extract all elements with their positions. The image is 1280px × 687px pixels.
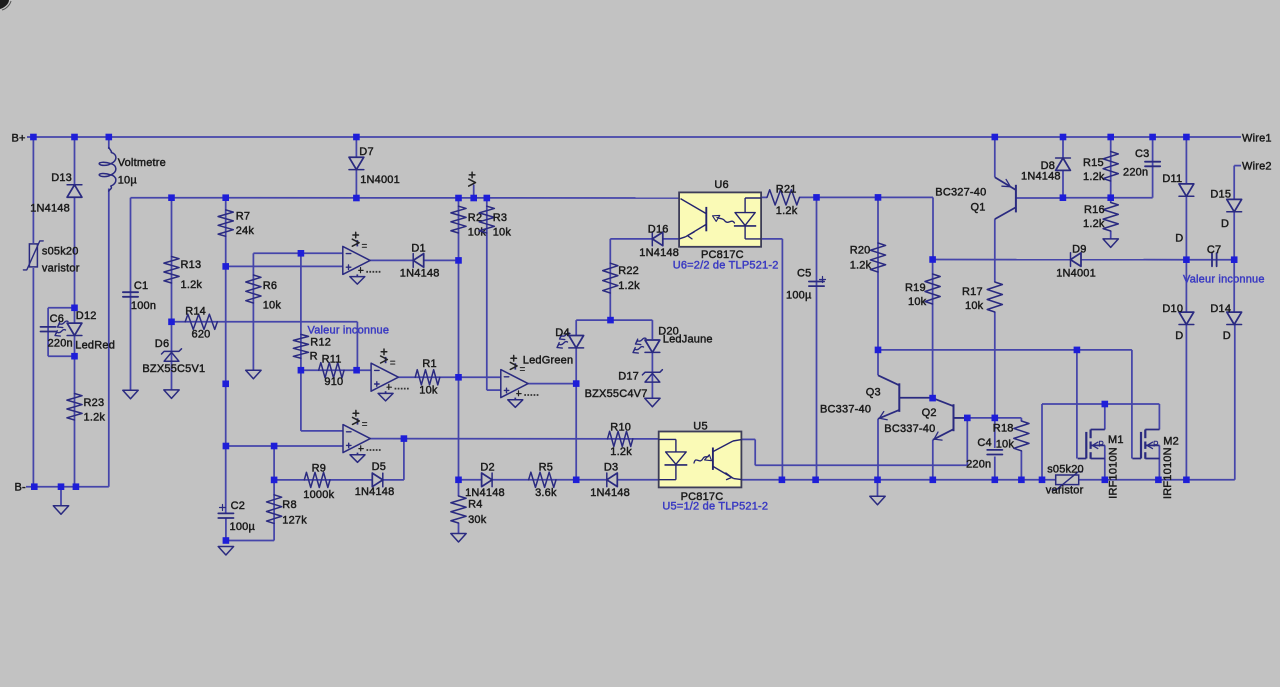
svg-text:1.2k: 1.2k [1083, 218, 1105, 230]
junction minus-R12 [298, 250, 305, 257]
svg-text:R17: R17 [962, 286, 983, 298]
wire D7 lower lead [355, 170, 357, 198]
wire OA4 out [528, 383, 576, 385]
svg-text:10µ: 10µ [118, 174, 138, 186]
svg-text:LedGreen: LedGreen [523, 355, 574, 367]
resistor R7 [218, 210, 233, 236]
wire C1 vertical [130, 198, 132, 391]
wire D7 branch [355, 137, 357, 158]
diode D20 LedJaune [645, 340, 660, 352]
svg-text:10k: 10k [263, 300, 282, 312]
op-amp OA1 [343, 232, 382, 284]
svg-text:10k: 10k [419, 385, 438, 397]
wire U6 out right [761, 239, 782, 480]
diode D8 [1056, 158, 1071, 170]
wire M1 source [1104, 445, 1106, 479]
wire D14 column [1233, 260, 1235, 325]
wire Q1 base rail [1016, 197, 1063, 199]
wire D11 column [1185, 137, 1187, 260]
svg-text:1.2k: 1.2k [84, 412, 106, 424]
wire C3 vertical [1152, 137, 1154, 198]
svg-text:D13: D13 [51, 172, 72, 184]
svg-text:C7: C7 [1207, 244, 1221, 256]
svg-text:D12: D12 [76, 310, 97, 322]
wire R14 line [172, 322, 358, 370]
svg-text:IRF1010N: IRF1010N [1162, 447, 1174, 499]
junction gate-Q3c [875, 347, 882, 354]
svg-text:varistor: varistor [42, 263, 80, 275]
junction railR-D8 [1060, 194, 1067, 201]
wire Wire2 stub [1234, 165, 1241, 167]
svg-text:1N4148: 1N4148 [355, 486, 395, 498]
svg-text:BZX55C5V1: BZX55C5V1 [142, 363, 205, 375]
wire R4 to ground [458, 523, 460, 534]
ground R6 gnd [246, 370, 261, 379]
svg-text:R: R [310, 351, 318, 363]
svg-text:910: 910 [324, 376, 343, 388]
wire D13 branch [74, 137, 76, 308]
junction rail-R2 [455, 195, 462, 202]
svg-text:Valeur inconnue: Valeur inconnue [308, 325, 390, 337]
optocoupler U6 [679, 192, 761, 246]
junction bus-Q1 [992, 134, 999, 141]
svg-text:B+: B+ [12, 133, 26, 145]
wire big bottom rail left [459, 479, 659, 481]
wire R2-D1 to OA4 [458, 260, 460, 377]
wire ground stub rail [877, 480, 879, 497]
capacitor C6 [41, 327, 56, 332]
svg-text:R18: R18 [993, 423, 1014, 435]
C5 plus sign [820, 277, 826, 283]
wire Q3 emitter drop [877, 419, 879, 480]
junction plusrail-R8 [271, 443, 278, 450]
junction rail-D2 [455, 477, 462, 484]
junction Q2base-U5 [964, 415, 971, 422]
capacitor C5 [809, 282, 824, 287]
ground C2 gnd [218, 547, 233, 556]
wire R20 vertical [877, 197, 879, 375]
op-amp OA2 [371, 349, 410, 401]
svg-text:1.2k: 1.2k [618, 280, 640, 292]
wire R4 hang [458, 480, 460, 496]
svg-text:D: D [1175, 232, 1183, 244]
ground rail gnd [870, 496, 885, 505]
svg-text:D14: D14 [1210, 303, 1231, 315]
diode D4 LedGreen [569, 336, 584, 348]
svg-text:Q1: Q1 [971, 202, 986, 214]
junction R11-left [298, 367, 305, 374]
resistor R22 [603, 263, 618, 293]
wire M2 drain [1158, 404, 1160, 430]
wire Q2 emitter drop [932, 440, 934, 480]
svg-text:R11: R11 [322, 354, 342, 366]
optocoupler U5 [659, 432, 742, 488]
svg-text:D17: D17 [618, 371, 639, 383]
wire M1 drain [1104, 404, 1106, 430]
diode D13 [67, 185, 82, 197]
diode D11 [1179, 184, 1194, 196]
op-amp OA3 [343, 410, 382, 462]
svg-text:Valeur inconnue: Valeur inconnue [1183, 274, 1265, 286]
wire R9-D5 line [274, 479, 404, 481]
wire R16 to ground [1110, 231, 1112, 239]
Q3 base lead [899, 397, 932, 399]
svg-text:s05k20: s05k20 [1047, 463, 1084, 475]
svg-text:10k: 10k [996, 439, 1015, 451]
resistor R16 [1103, 203, 1118, 232]
capacitor C3 [1145, 162, 1160, 167]
junction D1-R2 [455, 257, 462, 264]
resistor R1 [415, 370, 440, 385]
svg-text:R1: R1 [422, 358, 436, 370]
svg-text:30k: 30k [468, 514, 487, 526]
resistor R14 [185, 314, 217, 329]
svg-text:C3: C3 [1135, 148, 1149, 160]
wire C2 bottom link [226, 446, 274, 541]
resistor R12 [293, 334, 308, 358]
junction bus-D11 [1183, 134, 1190, 141]
svg-text:127k: 127k [282, 514, 307, 526]
svg-text:10k: 10k [493, 227, 512, 239]
diode D16 [652, 232, 663, 246]
resistor R9 [304, 472, 330, 487]
wire D4 chain [576, 320, 610, 336]
svg-text:D: D [1223, 330, 1231, 342]
junction bus-R15 [1107, 134, 1114, 141]
svg-text:R21: R21 [776, 184, 797, 196]
transistor Q1 [995, 177, 1016, 219]
wire Q1 emitter vert [994, 137, 996, 177]
junction rail-D4 [573, 477, 580, 484]
wire D16 line [610, 238, 679, 240]
junction bus-D13 [71, 134, 78, 141]
LED arrows D20 [636, 338, 647, 345]
transistor Q3 [878, 375, 899, 420]
wire big bottom rail right [1079, 325, 1235, 480]
svg-text:s05k20: s05k20 [42, 246, 79, 258]
wire B+ top bus [27, 136, 1241, 138]
svg-text:U6: U6 [714, 179, 728, 191]
svg-text:C4: C4 [977, 437, 991, 449]
svg-text:D2: D2 [480, 462, 494, 474]
junction bus-C3 [1149, 134, 1156, 141]
svg-text:620: 620 [192, 329, 211, 341]
svg-text:10k: 10k [908, 296, 927, 308]
mosfet M1 [1078, 430, 1105, 459]
svg-text:1N4148: 1N4148 [639, 247, 679, 259]
wire R3 vertical [487, 198, 501, 390]
wire C6 parallel branch [48, 308, 74, 356]
svg-text:C1: C1 [134, 280, 148, 292]
wire D4 to rail [575, 348, 577, 480]
ground D6 gnd [164, 390, 179, 399]
diode D7 [349, 157, 364, 169]
svg-text:D: D [1221, 218, 1229, 230]
svg-text:R4: R4 [468, 499, 482, 511]
junction drainbus-M1 [1102, 401, 1109, 408]
inductor Voltmetre [99, 148, 116, 192]
junction C2-bot [223, 537, 230, 544]
svg-text:D15: D15 [1210, 188, 1231, 200]
wire D9 line [933, 259, 1187, 261]
svg-text:R9: R9 [312, 463, 326, 475]
wire R18 to rail [1020, 451, 1022, 480]
wire R7 backbone [225, 198, 227, 513]
svg-text:1N4148: 1N4148 [30, 203, 70, 215]
op-amp OA4 [501, 355, 540, 407]
screen corner mark [0, 0, 9, 9]
wire backbone below C2 [225, 519, 227, 541]
wire varistor to B- [32, 268, 34, 487]
capacitor C2 [218, 513, 233, 518]
svg-text:D1: D1 [411, 243, 425, 255]
junction bus-D8 [1060, 134, 1067, 141]
svg-text:BC327-40: BC327-40 [935, 186, 986, 198]
LED arrows D4 [560, 333, 571, 340]
junction B-2 [73, 483, 80, 490]
resistor R11 [319, 363, 344, 378]
capacitor C4 [987, 450, 1002, 455]
wire R16 hang [1110, 198, 1112, 203]
diode D10 [1179, 312, 1194, 324]
svg-text:R5: R5 [539, 462, 553, 474]
junction rail-Q2e [930, 477, 937, 484]
wire R19 vertical [932, 260, 934, 399]
junction R1-out [455, 374, 462, 381]
junction B-gnd [58, 483, 65, 490]
svg-text:220n: 220n [966, 459, 991, 471]
svg-text:R22: R22 [618, 265, 639, 277]
junction R14-node [168, 319, 175, 326]
svg-text:C5: C5 [797, 268, 811, 280]
resistor R13 [164, 257, 179, 284]
svg-text:C2: C2 [231, 500, 245, 512]
wire R12 to OA3 minus [301, 370, 343, 431]
wire ground stub B- [60, 487, 62, 506]
resistor R17 [987, 282, 1002, 312]
svg-text:1N4148: 1N4148 [465, 487, 505, 499]
wire V+ flag stub [473, 185, 475, 199]
wire gate bus [878, 350, 1132, 459]
svg-text:1N4148: 1N4148 [400, 267, 440, 279]
svg-text:R13: R13 [181, 259, 202, 271]
svg-text:LedJaune: LedJaune [663, 334, 713, 346]
junction OA3-out [401, 435, 408, 442]
varistor s05k20 left [23, 241, 43, 270]
ground D17 gnd [645, 398, 660, 407]
svg-text:Q3: Q3 [866, 387, 881, 399]
resistor R18 [1014, 421, 1029, 451]
resistor R20 [870, 243, 885, 272]
ground C1 gnd [123, 390, 138, 399]
junction Q2base-R17 [992, 415, 999, 422]
junction Q3base-node [929, 395, 936, 402]
wire R2 vertical [458, 198, 460, 260]
svg-text:1.2k: 1.2k [776, 205, 798, 217]
C2 plus sign [220, 505, 226, 511]
svg-text:R23: R23 [84, 397, 105, 409]
diode D12 LedRed [67, 323, 82, 335]
svg-text:D: D [1175, 330, 1183, 342]
svg-text:R6: R6 [263, 280, 277, 292]
resistor R8 [267, 495, 282, 524]
junction C6-top [71, 305, 78, 312]
wire R21 to C5/R20 rail [800, 197, 934, 259]
junction rail-R18 [1018, 477, 1025, 484]
junction r21-R20 [875, 194, 882, 201]
wire D12 to R23 to B- [74, 308, 76, 487]
wire OA2 out to OA4 minus [398, 376, 500, 378]
svg-text:100µ: 100µ [230, 521, 256, 533]
svg-text:BZX55C4V7: BZX55C4V7 [585, 388, 648, 400]
svg-text:1N4148: 1N4148 [1021, 171, 1061, 183]
svg-text:C6: C6 [50, 313, 64, 325]
capacitor C7 [1212, 253, 1217, 266]
svg-text:10k: 10k [965, 300, 984, 312]
wire D20 to ground [651, 353, 653, 399]
zener diode D6 [164, 352, 179, 361]
svg-text:BC337-40: BC337-40 [884, 423, 935, 435]
svg-text:R19: R19 [905, 282, 926, 294]
wire R21 rail [761, 196, 767, 198]
svg-text:1000k: 1000k [303, 489, 334, 501]
resistor R6 [246, 275, 261, 303]
junction bus-varistor [30, 134, 37, 141]
varistor s05k20 right [1052, 472, 1082, 490]
transistor Q2 [933, 398, 954, 440]
junction D4-D20 [607, 317, 614, 324]
junction B-1 [31, 483, 38, 490]
wire gate feed M1 [1076, 350, 1078, 459]
junction rail-C4 [992, 477, 999, 484]
mosfet M2 [1132, 430, 1159, 459]
wire R15 vertical [1110, 137, 1112, 198]
svg-text:D10: D10 [1162, 303, 1183, 315]
junction rail-D10 [1183, 477, 1190, 484]
wire M2 source [1158, 445, 1160, 479]
junction plus-R7 [222, 263, 229, 270]
junction C7-left [1183, 256, 1190, 263]
wire R11 line [301, 369, 371, 371]
resistor R4 [451, 496, 466, 523]
diode D9 [1071, 253, 1082, 267]
svg-text:U5: U5 [693, 421, 707, 433]
svg-text:3.6k: 3.6k [535, 487, 557, 499]
wire minus rail OA1 [253, 252, 342, 254]
wire drain bus top [1042, 403, 1159, 405]
wire R6 vertical [252, 253, 254, 370]
capacitor C1 [123, 292, 138, 297]
junction rail-M1 [1102, 477, 1109, 484]
zener diode D17 [645, 373, 660, 382]
diode D14 [1227, 312, 1242, 324]
junction backbone-C2 [223, 443, 230, 450]
resistor R10 [608, 431, 633, 446]
junction C7-right [1231, 256, 1238, 263]
svg-text:varistor: varistor [1046, 485, 1084, 497]
junction rail-gatebus [1039, 477, 1046, 484]
junction rail-V+ [470, 195, 477, 202]
junction C6-bot [71, 353, 78, 360]
wire OA3 plus rail [226, 445, 343, 447]
svg-text:100n: 100n [131, 300, 156, 312]
junction bus-L [106, 134, 113, 141]
svg-text:D11: D11 [1162, 173, 1182, 185]
wire OA3 out rail [370, 438, 658, 440]
svg-text:24k: 24k [236, 225, 255, 237]
junction OA4-out [573, 380, 580, 387]
junction rail-U6 [779, 477, 786, 484]
junction gate-M1 [1074, 347, 1081, 354]
wire OA1 out [370, 259, 458, 261]
ground R16 gnd [1103, 239, 1118, 248]
wire R12 vertical [300, 253, 302, 370]
svg-text:M2: M2 [1163, 436, 1179, 448]
junction R11-right [353, 367, 360, 374]
junction rail-R3 [484, 195, 491, 202]
resistor R3 [479, 206, 494, 233]
svg-text:220n: 220n [48, 338, 73, 350]
diode D5 [372, 473, 383, 487]
wire D15 column [1233, 166, 1235, 260]
junction rail-gnd [874, 477, 881, 484]
junction rail-D7 [353, 195, 360, 202]
wire D8 vertical [1062, 137, 1064, 198]
wire plus rail OA1 [226, 265, 343, 267]
wire drain bus [1041, 404, 1043, 480]
wire big bottom rail mid [741, 479, 1056, 481]
junction rail-R7 [222, 194, 229, 201]
svg-text:Q2: Q2 [922, 407, 937, 419]
svg-text:BC337-40: BC337-40 [820, 404, 871, 416]
svg-text:R8: R8 [282, 499, 296, 511]
diode D3 [607, 473, 618, 487]
svg-text:D16: D16 [648, 224, 669, 236]
svg-text:D3: D3 [604, 462, 618, 474]
Q2 base lead [954, 417, 968, 419]
junction bus-D7 [353, 134, 360, 141]
wire left V rail y198 [131, 197, 680, 199]
svg-text:U6=2/2 de TLP521-2: U6=2/2 de TLP521-2 [673, 260, 779, 272]
diode D2 [482, 473, 493, 487]
svg-text:LedRed: LedRed [75, 340, 115, 352]
junction rail-C5 [812, 477, 819, 484]
ground R4 gnd [451, 534, 466, 543]
svg-text:M1: M1 [1108, 434, 1124, 446]
wire OA3 out to D5 [403, 439, 405, 480]
svg-text:100µ: 100µ [786, 290, 812, 302]
junction backbone-OA2plus [222, 381, 229, 388]
wire B- rail [26, 189, 109, 487]
wire D20 chain [611, 320, 653, 339]
wire C5 vertical [816, 197, 818, 479]
svg-text:D6: D6 [155, 338, 169, 350]
junction D9-left [929, 256, 936, 263]
junction rail-M2 [1155, 477, 1162, 484]
wire Q1 collector to R17 [994, 219, 996, 282]
wire C4 to rail [994, 457, 996, 480]
svg-text:R7: R7 [236, 211, 250, 223]
svg-text:Wire1: Wire1 [1242, 133, 1272, 145]
resistor R2 [451, 206, 466, 233]
svg-text:1N4001: 1N4001 [360, 174, 400, 186]
svg-text:1.2k: 1.2k [1083, 171, 1105, 183]
svg-text:Wire2: Wire2 [1242, 161, 1272, 173]
svg-text:R3: R3 [493, 212, 507, 224]
svg-text:R12: R12 [310, 337, 331, 349]
resistor R5 [529, 472, 556, 487]
svg-text:R10: R10 [610, 421, 631, 433]
